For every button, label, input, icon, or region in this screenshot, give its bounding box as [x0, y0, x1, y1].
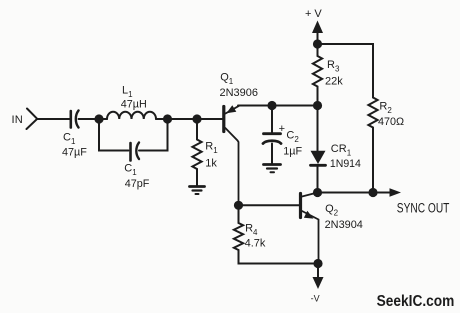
transistor Q1	[224, 105, 239, 205]
label SYNC OUT	[397, 201, 450, 216]
label CR1 1N914	[330, 143, 361, 170]
wire node C to Q1 base	[197, 118, 222, 120]
wire node C down to R1	[196, 119, 198, 140]
svg-text:IN: IN	[12, 114, 24, 126]
wire node I down to R4	[238, 205, 240, 223]
ground below R1	[190, 187, 205, 195]
wire C2 to ground	[271, 144, 273, 164]
svg-text:-V: -V	[311, 293, 320, 303]
label Q1 2N3906	[220, 72, 259, 99]
node F junction below +V	[313, 39, 322, 48]
node E junction	[313, 101, 322, 110]
svg-text:1N914: 1N914	[330, 158, 361, 170]
label R3 22k	[325, 59, 343, 88]
wire tank branch left down	[99, 119, 129, 151]
label L1 47uH	[121, 85, 147, 111]
inductor L1	[107, 112, 156, 119]
svg-text:470Ω: 470Ω	[378, 116, 404, 128]
svg-text:2N3906: 2N3906	[220, 87, 259, 99]
wire R3 to node E	[317, 87, 319, 106]
resistor R4	[234, 223, 243, 250]
wire CR1 to node G	[317, 165, 319, 193]
wire node E down to CR1	[317, 106, 319, 151]
label + C2 1uF	[279, 123, 303, 157]
wire node G to node H output	[318, 192, 374, 194]
wire R2 down to node H	[372, 128, 374, 193]
wire node F to R3	[317, 44, 319, 56]
wire node F branch right	[318, 44, 374, 98]
resistor R3	[313, 56, 322, 87]
wire node B to node C	[168, 118, 198, 120]
label R2 470ohm	[378, 101, 404, 129]
svg-text:+V: +V	[305, 8, 325, 20]
label C1	[62, 132, 87, 159]
node I junction	[234, 201, 243, 210]
wire output arrow SYNC OUT	[373, 188, 401, 197]
node C junction	[192, 114, 201, 123]
svg-text:47pF: 47pF	[125, 178, 150, 190]
svg-text:2N3904: 2N3904	[325, 219, 363, 231]
ground below C2	[264, 165, 281, 173]
label Q2 2N3904	[325, 203, 363, 231]
resistor R1	[192, 140, 201, 170]
node H junction output	[368, 188, 377, 197]
label -V	[311, 293, 320, 303]
node A junction	[94, 114, 103, 123]
node IN terminal arrow	[27, 109, 38, 130]
svg-text:47µF: 47µF	[62, 147, 87, 159]
label R4 4.7k	[245, 222, 266, 249]
label IN	[12, 114, 24, 126]
wire R4 bottom to node J	[239, 250, 319, 264]
wire Q1 emitter rail to node D	[238, 105, 272, 107]
label R1 1k	[205, 141, 218, 170]
wire C1 to node A	[79, 118, 100, 120]
transistor Q2	[301, 193, 319, 264]
diode CR1	[311, 151, 326, 166]
svg-text:4.7k: 4.7k	[245, 238, 266, 250]
node B junction	[163, 114, 172, 123]
watermark SeekIC.com	[377, 293, 455, 310]
capacitor C1	[71, 111, 79, 128]
wire node A to L1	[99, 118, 107, 120]
svg-text:22k: 22k	[325, 76, 343, 88]
capacitor C4 tank	[131, 143, 140, 161]
wire node D to node E	[272, 105, 318, 107]
svg-text:47µH: 47µH	[121, 99, 147, 111]
power +V terminal	[312, 21, 323, 45]
svg-text:SeekIC.com: SeekIC.com	[377, 293, 455, 310]
svg-text:1µF: 1µF	[283, 146, 302, 158]
wire Q2 base to node I	[239, 204, 301, 206]
resistor R2	[368, 98, 377, 128]
wire R1 to ground	[196, 169, 198, 186]
svg-text:1k: 1k	[205, 158, 217, 170]
svg-text:SYNC OUT: SYNC OUT	[397, 201, 450, 216]
node D junction	[267, 101, 276, 110]
capacitor C2 polarized	[263, 134, 281, 144]
label C4 47pF	[124, 163, 150, 190]
power -V terminal	[313, 264, 324, 290]
wire node D down to C2	[271, 106, 273, 133]
wire IN to C1	[37, 118, 70, 120]
node J junction emitter bottom	[313, 259, 322, 268]
wire L1 to node B	[156, 118, 168, 120]
label +V	[305, 8, 325, 20]
svg-text:+: +	[279, 123, 285, 135]
wire tank branch right up	[139, 119, 168, 151]
node G junction Q2 collector	[313, 188, 322, 197]
